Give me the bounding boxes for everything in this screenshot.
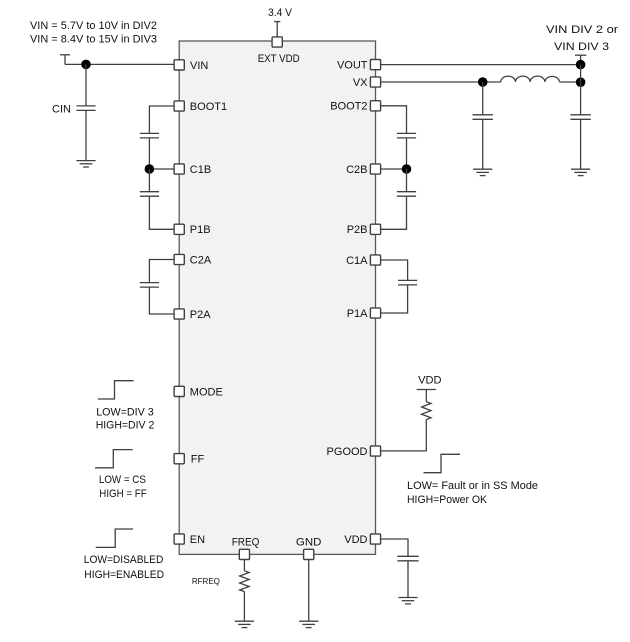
svg-text:VIN = 8.4V to 15V in DIV3: VIN = 8.4V to 15V in DIV3	[30, 34, 157, 46]
wire C2 to P1B	[149, 196, 174, 229]
junction VOUT output node	[576, 60, 586, 70]
junction C2B node	[402, 164, 412, 174]
label FF levels	[99, 474, 147, 500]
ground COUT	[571, 169, 590, 175]
pin C1A	[370, 255, 380, 265]
wire FREQ to RFREQ	[243, 560, 245, 571]
label MODE levels	[96, 407, 155, 432]
ground CVDD	[398, 598, 417, 604]
wire C6 to P1A	[381, 285, 408, 313]
capacitor C3 flying C2A-P2A	[140, 283, 159, 288]
svg-text:FF: FF	[191, 454, 205, 466]
pin C1B	[174, 164, 184, 174]
capacitor CVDD	[397, 556, 418, 597]
IC U1 body	[179, 41, 375, 554]
wire C1A to C6	[381, 260, 408, 280]
svg-text:P2A: P2A	[190, 309, 211, 321]
svg-text:3.4 V: 3.4 V	[268, 7, 293, 19]
svg-text:GND: GND	[296, 537, 322, 549]
wire VIN input to pin	[65, 63, 174, 65]
wire C3 to P2A	[149, 287, 174, 314]
capacitor C5 flying C2B-P2B	[397, 192, 416, 197]
pin P1B	[174, 224, 184, 234]
svg-text:C1A: C1A	[346, 255, 368, 267]
ground GND pin	[299, 621, 318, 627]
wire inductor to output node	[560, 81, 581, 83]
wire C2B node to C5	[406, 169, 408, 192]
svg-text:LOW=DISABLED: LOW=DISABLED	[84, 554, 164, 566]
node EXT VDD supply terminal	[274, 22, 280, 37]
wire VOUT to output node	[381, 64, 581, 66]
wire VDD pin to CVDD	[381, 539, 408, 556]
svg-text:CIN: CIN	[52, 104, 71, 116]
wire C1 to C1B node	[149, 138, 174, 169]
svg-text:P1B: P1B	[190, 224, 211, 236]
svg-text:HIGH=Power OK: HIGH=Power OK	[407, 494, 488, 506]
symbol EN logic step	[96, 529, 133, 547]
pin FF	[174, 454, 184, 464]
svg-text:LOW= Fault or in SS Mode: LOW= Fault or in SS Mode	[407, 480, 538, 492]
capacitor COUT	[570, 115, 590, 169]
node VDD rail terminal	[417, 390, 436, 402]
pin EXT VDD	[272, 37, 282, 47]
pin P2B	[370, 224, 380, 234]
pin GND	[304, 549, 314, 559]
pin EN	[174, 534, 184, 544]
svg-text:C2A: C2A	[190, 254, 212, 266]
svg-text:BOOT1: BOOT1	[190, 101, 227, 113]
junction C1B node	[145, 164, 155, 174]
pin P2A	[174, 309, 184, 319]
pin C2A	[174, 254, 184, 264]
svg-text:EN: EN	[190, 534, 205, 546]
wire C1B node to C2	[148, 169, 150, 192]
svg-text:LOW = CS: LOW = CS	[99, 474, 146, 486]
pin P1A	[370, 308, 380, 318]
svg-text:C2B: C2B	[346, 164, 367, 176]
wire BOOT2 to C4	[381, 106, 407, 134]
label PGOOD levels	[407, 480, 538, 506]
svg-text:BOOT2: BOOT2	[330, 101, 367, 113]
junction output node VX side	[576, 77, 586, 87]
svg-text:VIN DIV 3: VIN DIV 3	[554, 41, 609, 53]
capacitor C4 flying BOOT2-C2B	[397, 133, 416, 138]
pin VOUT	[370, 60, 380, 70]
svg-text:FREQ: FREQ	[232, 537, 260, 549]
svg-text:PGOOD: PGOOD	[327, 446, 368, 458]
capacitor C6 flying C1A-P1A	[398, 280, 417, 285]
wire RFREQ to ground	[243, 592, 245, 622]
svg-text:P2B: P2B	[347, 224, 368, 236]
pin MODE	[174, 386, 184, 396]
capacitor CIN	[76, 64, 95, 160]
junction input node	[81, 60, 91, 70]
svg-text:P1A: P1A	[347, 308, 368, 320]
label EN levels	[84, 554, 164, 581]
ground CIN	[76, 161, 95, 167]
pin VX	[370, 77, 380, 87]
svg-text:EXT VDD: EXT VDD	[258, 53, 300, 65]
pin PGOOD	[370, 446, 380, 456]
svg-text:RFREQ: RFREQ	[192, 577, 220, 586]
wire output node vertical	[580, 65, 582, 115]
svg-text:MODE: MODE	[190, 386, 223, 398]
pin VIN	[174, 60, 184, 70]
wire C5 to P2B	[381, 196, 407, 229]
svg-text:HIGH = FF: HIGH = FF	[99, 488, 147, 500]
wire VX to LX node	[381, 81, 501, 83]
ground CVX	[473, 169, 492, 175]
pin C2B	[370, 164, 380, 174]
wire C4 to C2B node	[381, 138, 407, 169]
node VIN DIV terminal	[575, 55, 586, 64]
inductor L1	[501, 76, 560, 82]
svg-text:HIGH=ENABLED: HIGH=ENABLED	[84, 569, 164, 581]
junction VX node	[478, 77, 488, 87]
label VIN DIV output note	[546, 24, 618, 53]
svg-text:VDD: VDD	[418, 375, 441, 387]
resistor RFREQ	[240, 571, 249, 592]
symbol MODE logic step	[98, 381, 134, 399]
symbol FF logic step	[95, 450, 133, 468]
ground RFREQ	[235, 621, 254, 627]
capacitor C2 flying C1B-P1B	[140, 192, 159, 197]
svg-text:VIN DIV 2 or: VIN DIV 2 or	[546, 24, 618, 36]
pin BOOT1	[174, 101, 184, 111]
symbol PGOOD logic step	[424, 454, 461, 472]
pin BOOT2	[370, 101, 380, 111]
resistor RPGOOD	[422, 402, 431, 420]
svg-text:LOW=DIV 3: LOW=DIV 3	[96, 407, 154, 419]
label VIN range note	[30, 20, 157, 45]
svg-text:VOUT: VOUT	[337, 60, 368, 72]
svg-text:HIGH=DIV 2: HIGH=DIV 2	[96, 420, 155, 432]
svg-text:VIN = 5.7V to 10V in DIV2: VIN = 5.7V to 10V in DIV2	[30, 20, 157, 32]
svg-text:VDD: VDD	[344, 534, 367, 546]
wire resistor to PGOOD	[381, 420, 427, 451]
wire BOOT1 to C1	[149, 106, 174, 133]
capacitor CVX	[473, 82, 493, 169]
pin VDD right	[370, 534, 380, 544]
node VIN input terminal	[60, 55, 70, 65]
pin FREQ	[239, 549, 249, 559]
svg-text:C1B: C1B	[190, 164, 211, 176]
svg-text:VX: VX	[353, 77, 368, 89]
svg-text:VIN: VIN	[190, 60, 208, 72]
wire C2A to C3	[149, 260, 174, 283]
wire GND pin to ground	[308, 560, 310, 622]
capacitor C1 flying BOOT1-C1B	[140, 133, 159, 138]
